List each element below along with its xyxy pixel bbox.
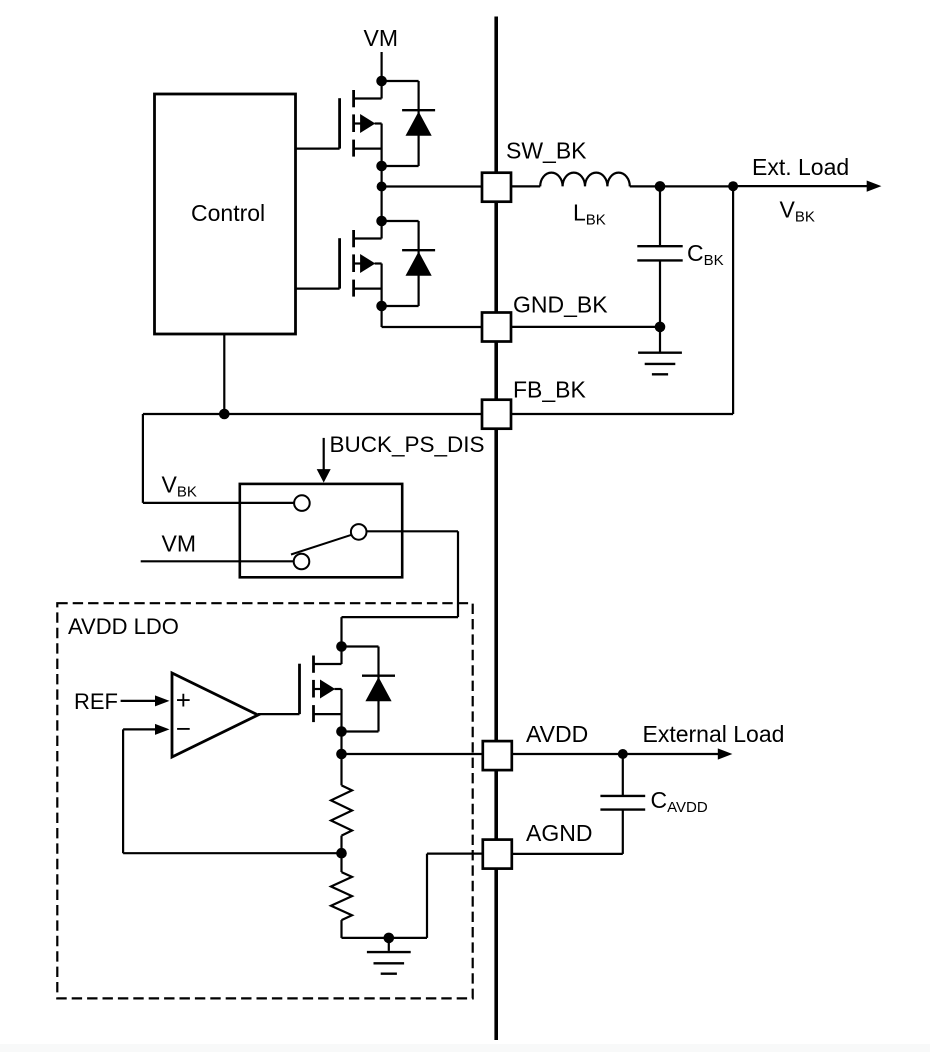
svg-text:+: + — [176, 685, 191, 715]
svg-text:Ext. Load: Ext. Load — [752, 154, 849, 180]
svg-text:LBK: LBK — [573, 200, 606, 229]
svg-text:AGND: AGND — [526, 820, 592, 846]
svg-text:External Load: External Load — [643, 721, 785, 747]
svg-text:GND_BK: GND_BK — [513, 292, 608, 318]
svg-text:REF: REF — [74, 689, 118, 714]
svg-text:FB_BK: FB_BK — [513, 377, 587, 403]
svg-text:SW_BK: SW_BK — [506, 138, 587, 164]
svg-text:Control: Control — [191, 200, 265, 226]
svg-text:CBK: CBK — [687, 240, 724, 269]
svg-text:VBK: VBK — [780, 197, 815, 226]
svg-text:−: − — [176, 714, 191, 744]
svg-text:VM: VM — [162, 531, 197, 557]
svg-text:VM: VM — [364, 25, 399, 51]
svg-text:VBK: VBK — [162, 472, 197, 501]
svg-text:AVDD: AVDD — [526, 721, 588, 747]
svg-text:BUCK_PS_DIS: BUCK_PS_DIS — [330, 432, 485, 457]
svg-text:AVDD LDO: AVDD LDO — [68, 614, 179, 639]
svg-text:CAVDD: CAVDD — [651, 787, 708, 816]
